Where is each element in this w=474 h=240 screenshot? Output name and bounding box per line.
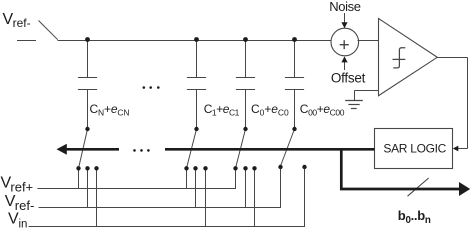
- svg-text:C00+eC00: C00+eC00: [300, 102, 345, 118]
- svg-text:ref-: ref-: [13, 16, 31, 30]
- svg-text:Noise: Noise: [329, 0, 361, 14]
- svg-text:in: in: [19, 218, 28, 230]
- svg-text:b0..bn: b0..bn: [398, 208, 431, 226]
- svg-text:C1+eC1: C1+eC1: [204, 102, 240, 118]
- svg-text:SAR LOGIC: SAR LOGIC: [383, 142, 446, 156]
- svg-text:V: V: [8, 210, 19, 227]
- svg-text:CN+eCN: CN+eCN: [90, 102, 130, 118]
- svg-text:Offset: Offset: [331, 71, 366, 86]
- svg-text:C0+eC0: C0+eC0: [251, 102, 289, 118]
